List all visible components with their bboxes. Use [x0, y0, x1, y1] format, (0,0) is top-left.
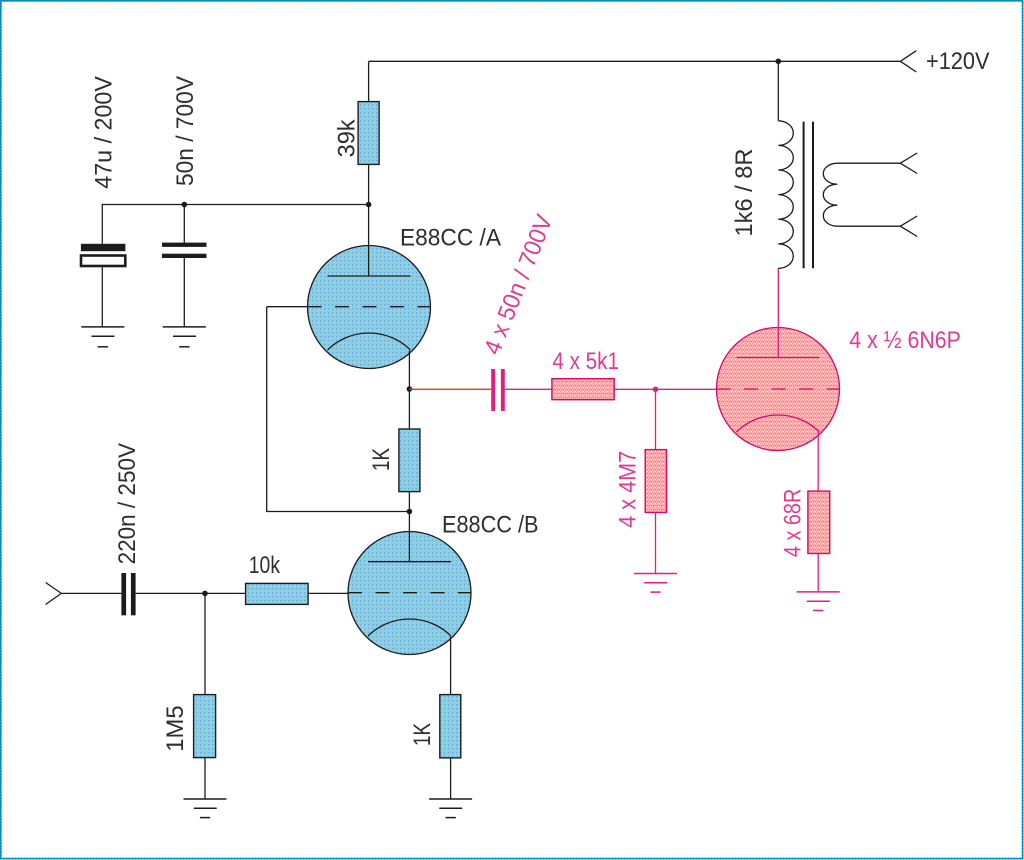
resistor 4 x 68R	[808, 491, 830, 553]
svg-text:1K: 1K	[409, 723, 436, 746]
capacitor 220n/250V	[121, 573, 135, 615]
svg-text:4 x 68R: 4 x 68R	[779, 489, 806, 557]
triode E88CC /B	[348, 532, 471, 655]
node 4M7 junction	[653, 387, 659, 393]
capacitor 47u/200V	[81, 244, 126, 266]
wire coupling node to 4x50n (red net)	[409, 388, 491, 390]
svg-text:E88CC /A: E88CC /A	[400, 224, 501, 251]
wire 39k to tube A anode	[368, 164, 370, 276]
wire input to 220n	[61, 592, 121, 594]
node tube B anode junction	[407, 509, 413, 515]
wire transformer primary top lead	[777, 61, 779, 121]
resistor 1M5	[194, 695, 216, 758]
wire +120V rail	[369, 60, 901, 62]
svg-text:47u / 200V: 47u / 200V	[91, 76, 118, 189]
wire 1M5 top lead	[204, 593, 206, 694]
svg-text:1M5: 1M5	[162, 705, 189, 751]
wire tube A cathode lead	[408, 351, 410, 430]
svg-text:E88CC /B: E88CC /B	[442, 512, 539, 539]
node decoupling junction	[366, 202, 372, 208]
terminal secondary top	[900, 153, 917, 174]
wire 50n top lead	[183, 204, 185, 243]
terminal +120V	[900, 51, 916, 72]
resistor 39k	[358, 102, 379, 165]
svg-text:1K: 1K	[368, 448, 395, 471]
wire SRPP feedback loop	[267, 307, 410, 512]
node grid leak junction	[202, 591, 208, 597]
svg-text:50n / 700V: 50n / 700V	[172, 76, 199, 186]
wire secondary top lead	[837, 162, 900, 164]
ground 1K	[429, 799, 472, 818]
transformer primary winding 1k6	[778, 121, 793, 269]
svg-text:4 x 5k1: 4 x 5k1	[552, 348, 619, 375]
wire secondary bottom lead	[837, 225, 900, 227]
wire tube A grid lead	[267, 306, 308, 308]
wire 10k to tube B grid	[308, 592, 348, 594]
wire tube B cathode lead	[450, 637, 452, 695]
svg-text:1k6 / 8R: 1k6 / 8R	[731, 149, 758, 237]
resistor 1K (cathode)	[440, 695, 461, 758]
triode 4 x 1/2 6N6P	[717, 328, 840, 451]
node 50n junction	[182, 202, 188, 208]
svg-text:39k: 39k	[334, 118, 361, 157]
transformer core	[804, 122, 813, 269]
wire 4x5k1 to tube grid	[614, 388, 716, 390]
resistor 4 x 5k1	[552, 379, 614, 400]
node tube A cathode / coupling junction	[407, 386, 413, 392]
svg-text:10k: 10k	[249, 552, 281, 579]
terminal input	[46, 583, 62, 605]
transformer secondary winding 8R	[823, 163, 837, 226]
ground 68R	[797, 592, 840, 611]
capacitor 50n/700V	[162, 243, 207, 258]
wire transformer to tube anode (pink)	[777, 268, 779, 357]
wire 4M7 to ground	[655, 512, 657, 573]
wire 1K to node	[408, 492, 410, 562]
ground 1M5	[184, 799, 227, 818]
wire 68R to ground	[817, 554, 819, 592]
wire 4M7 top lead	[655, 389, 657, 449]
wire 47u to ground	[101, 267, 103, 326]
wire 47u top lead	[101, 204, 103, 244]
capacitor 4 x 50n/700V	[491, 369, 505, 411]
wire 1K to ground	[450, 758, 452, 799]
svg-text:4 x ½ 6N6P: 4 x ½ 6N6P	[849, 327, 961, 354]
resistor 10k	[246, 583, 309, 604]
wire 50n to ground	[183, 258, 185, 326]
resistor 1K (SRPP)	[399, 429, 420, 492]
wire 1M5 to ground	[204, 758, 206, 799]
wire pink tube cathode lead	[817, 432, 819, 491]
svg-text:+120V: +120V	[926, 48, 990, 75]
resistor 4 x 4M7	[645, 450, 666, 513]
wire decoupling rail	[102, 204, 368, 206]
ground 50n	[163, 327, 206, 347]
wire 220n to 10k	[136, 592, 246, 594]
ground 47u	[81, 327, 124, 347]
node rail / transformer junction	[776, 59, 782, 65]
svg-text:4 x 4M7: 4 x 4M7	[614, 451, 641, 528]
wire 39k top lead	[368, 61, 370, 101]
wire 4x50n to 4x5k1	[505, 388, 552, 390]
triode E88CC /A	[308, 246, 431, 369]
terminal secondary bottom	[900, 216, 917, 237]
ground 4M7	[634, 574, 677, 593]
svg-text:220n / 250V: 220n / 250V	[114, 443, 141, 564]
